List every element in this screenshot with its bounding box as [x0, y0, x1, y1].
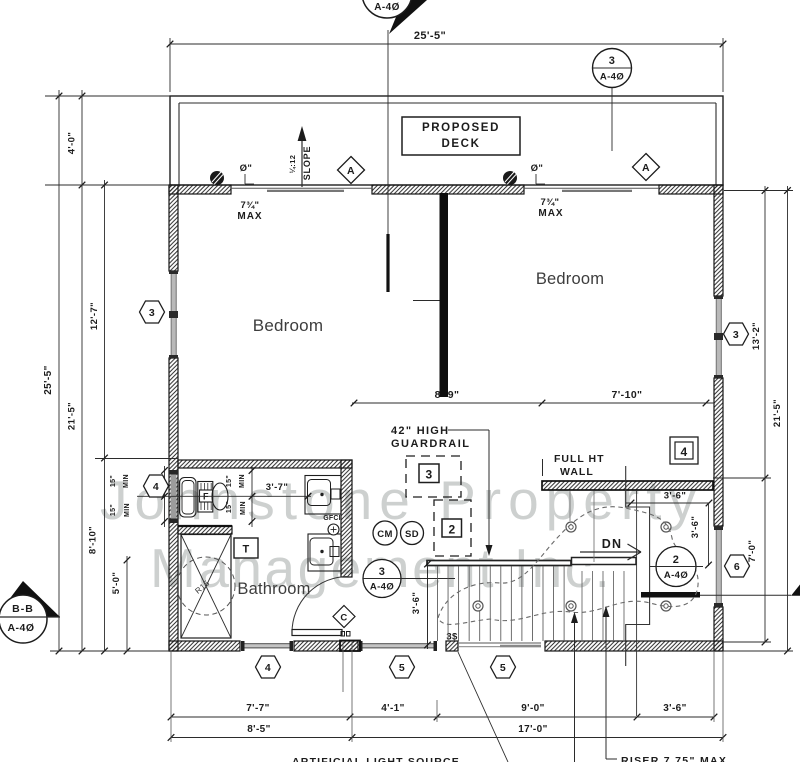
svg-text:4: 4 — [680, 445, 687, 459]
svg-text:7¾": 7¾" — [241, 200, 260, 211]
svg-text:A-4Ø: A-4Ø — [664, 570, 688, 581]
svg-text:Johnstone Property: Johnstone Property — [100, 469, 703, 531]
svg-text:21'-5": 21'-5" — [772, 399, 783, 427]
svg-text:3'-6": 3'-6" — [664, 491, 687, 502]
svg-text:GUARDRAIL: GUARDRAIL — [391, 438, 471, 450]
svg-text:15": 15" — [226, 501, 233, 513]
svg-text:7¾": 7¾" — [541, 197, 560, 208]
svg-text:3'-6": 3'-6" — [663, 703, 687, 714]
svg-text:3'-7": 3'-7" — [266, 482, 289, 493]
svg-text:13'-2": 13'-2" — [751, 322, 762, 350]
svg-text:A: A — [642, 162, 650, 174]
svg-text:7'-10": 7'-10" — [612, 389, 643, 401]
svg-text:7'-0": 7'-0" — [747, 540, 758, 563]
svg-text:42" HIGH: 42" HIGH — [391, 425, 449, 437]
svg-text:2: 2 — [673, 554, 680, 566]
svg-text:9'-0": 9'-0" — [521, 703, 545, 714]
svg-text:5: 5 — [399, 662, 405, 674]
svg-text:21'-5": 21'-5" — [67, 402, 78, 430]
svg-text:DECK: DECK — [442, 138, 481, 150]
svg-text:SLOPE: SLOPE — [302, 146, 312, 181]
svg-text:A-4Ø: A-4Ø — [600, 72, 624, 83]
svg-text:Ø": Ø" — [240, 163, 253, 174]
svg-text:3: 3 — [149, 307, 155, 319]
svg-text:3'-6": 3'-6" — [690, 516, 701, 539]
svg-text:15": 15" — [226, 475, 233, 487]
svg-text:MIN: MIN — [239, 474, 246, 488]
svg-text:2: 2 — [448, 523, 455, 537]
svg-text:7'-7": 7'-7" — [246, 703, 270, 714]
svg-text:Bathroom: Bathroom — [237, 580, 310, 598]
svg-text:MAX: MAX — [237, 211, 262, 222]
svg-text:FULL HT: FULL HT — [554, 453, 605, 465]
svg-text:25'-5": 25'-5" — [414, 30, 446, 42]
svg-text:PROPOSED: PROPOSED — [422, 122, 500, 134]
svg-text:DN: DN — [602, 537, 622, 551]
svg-text:T: T — [242, 544, 249, 556]
svg-text:25'-5": 25'-5" — [43, 365, 54, 395]
svg-text:6: 6 — [734, 561, 740, 573]
svg-text:CM: CM — [377, 529, 393, 540]
svg-text:3: 3 — [425, 468, 432, 482]
svg-text:3: 3 — [609, 55, 616, 67]
svg-text:3: 3 — [379, 566, 386, 578]
svg-text:5: 5 — [500, 662, 506, 674]
svg-text:ARTIFICIAL LIGHT SOURCE: ARTIFICIAL LIGHT SOURCE — [292, 756, 460, 762]
svg-text:4'-1": 4'-1" — [381, 703, 405, 714]
svg-text:GFCI: GFCI — [323, 515, 341, 522]
svg-text:4: 4 — [265, 662, 271, 674]
svg-text:A: A — [347, 165, 355, 177]
svg-text:Bedroom: Bedroom — [253, 316, 323, 335]
svg-text:4: 4 — [153, 481, 159, 493]
svg-text:3'-6": 3'-6" — [411, 592, 422, 615]
svg-text:¼:12: ¼:12 — [288, 155, 297, 174]
svg-text:A-4Ø: A-4Ø — [370, 582, 394, 593]
svg-text:3: 3 — [733, 329, 739, 341]
svg-text:12'-7": 12'-7" — [89, 302, 100, 330]
svg-text:Bedroom: Bedroom — [536, 270, 604, 288]
svg-text:A-4Ø: A-4Ø — [7, 622, 34, 634]
svg-text:Ø": Ø" — [531, 163, 544, 174]
svg-text:A-4Ø: A-4Ø — [374, 2, 400, 13]
svg-text:B-B: B-B — [12, 603, 34, 615]
svg-text:8'-10": 8'-10" — [88, 526, 99, 554]
svg-text:C: C — [340, 613, 347, 624]
svg-text:MIN: MIN — [123, 474, 130, 488]
svg-text:WALL: WALL — [560, 466, 594, 478]
svg-text:15": 15" — [110, 504, 117, 516]
svg-text:SD: SD — [405, 529, 419, 540]
svg-text:MIN: MIN — [240, 501, 247, 515]
svg-text:5'-0": 5'-0" — [111, 572, 122, 595]
svg-text:4'-0": 4'-0" — [67, 132, 78, 155]
svg-text:17'-0": 17'-0" — [518, 724, 548, 735]
svg-text:RISER 7.75" MAX: RISER 7.75" MAX — [621, 755, 727, 762]
svg-text:MAX: MAX — [538, 208, 563, 219]
svg-text:15": 15" — [110, 475, 117, 487]
svg-text:MIN: MIN — [124, 503, 131, 517]
svg-text:8'-5": 8'-5" — [247, 724, 271, 735]
